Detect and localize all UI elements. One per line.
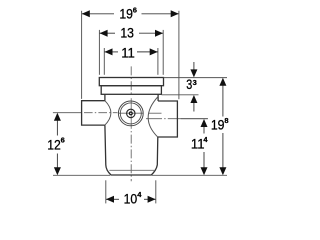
vertical centerline of body lower [130, 131, 132, 181]
svg-text:19: 19 [119, 6, 133, 21]
dimension 3.3 arrow bottom [190, 95, 197, 112]
svg-text:10: 10 [124, 192, 138, 207]
body left wall [104, 94, 106, 100]
dimension line 19.6 [82, 13, 179, 15]
svg-text:4: 4 [203, 135, 208, 144]
front socket inner circle [120, 103, 141, 124]
svg-text:12: 12 [47, 138, 61, 153]
svg-text:11: 11 [121, 46, 135, 61]
arrowhead 11 left [105, 48, 113, 55]
arrowhead 19.8 bottom [219, 167, 226, 175]
svg-text:6: 6 [61, 135, 65, 144]
extension line 3.3 top (collar top right) [164, 77, 227, 79]
arrowhead 19.8 top [219, 78, 226, 86]
svg-text:4: 4 [137, 190, 142, 199]
svg-text:3: 3 [193, 78, 197, 87]
extension line 10.4 right [155, 180, 157, 203]
arrowhead 11.4 bottom [201, 167, 208, 175]
dimension line 11.4 [203, 126, 205, 168]
body right wall upper [157, 94, 159, 101]
arrowhead 13 right [155, 30, 163, 37]
arrowhead 10.4 left [106, 196, 114, 203]
dimension line 12.6 [56, 120, 58, 168]
left branch body intersection arc [105, 101, 111, 125]
dimension line 11 [105, 51, 158, 53]
vertical centerline of body upper [130, 66, 132, 96]
left branch outline [82, 101, 105, 125]
horizontal centerline left branch solid ext [53, 112, 82, 114]
svg-text:8: 8 [224, 116, 228, 125]
bottom baseline left of body [53, 174, 110, 176]
svg-text:6: 6 [133, 5, 137, 14]
label 10.4 [124, 190, 143, 206]
extension line 11 right [157, 48, 159, 75]
extension line 11.4 (right branch axis) drawn by centerline; solid part [181, 118, 208, 120]
extension line 11 left [103, 48, 105, 75]
collar lower outline [101, 86, 161, 95]
arrowhead 12.6 top [54, 113, 61, 121]
front socket outer circle [118, 101, 143, 126]
arrowhead 11.4 top [201, 119, 208, 127]
dimension line 10.4 [106, 198, 156, 200]
label 12.6 [47, 135, 65, 152]
label 3.3 [186, 77, 196, 92]
body left wall lower and bottom [105, 125, 158, 175]
arrowhead 13 left [100, 30, 108, 37]
svg-text:19: 19 [211, 118, 225, 133]
center disc [129, 111, 133, 115]
svg-text:3: 3 [186, 77, 192, 92]
label 19.8 [211, 116, 229, 133]
extension line 13 right [162, 30, 164, 75]
extension line 3.3 bottom [162, 94, 199, 96]
arrowhead 19.6 left [82, 10, 90, 17]
vertical centerline through circle [130, 98, 132, 129]
collar rim outline [99, 78, 163, 86]
extension line 13 left [98, 30, 100, 75]
horizontal centerline left branch dashdot [84, 112, 118, 114]
dimension line 13 [100, 32, 163, 34]
center pinhole [130, 113, 131, 114]
label 11.4 [191, 135, 209, 151]
right branch outline [158, 101, 178, 137]
arrowhead 19.6 right [171, 10, 179, 17]
label 19.6 [119, 5, 137, 21]
extension line 10.4 left [105, 180, 107, 203]
arrowhead 11 right [150, 48, 158, 55]
dimension 3.3 arrow top [190, 62, 197, 77]
bottom baseline right of body [152, 174, 227, 176]
center small circle [127, 109, 135, 117]
horizontal centerline right of circle dash [149, 112, 162, 114]
svg-text:13: 13 [120, 26, 134, 41]
arrowhead 10.4 right [148, 196, 156, 203]
horizontal centerline right branch [146, 118, 208, 120]
right branch body intersection arc [148, 97, 158, 138]
dimension line 19.8 [222, 85, 224, 168]
arrowhead 12.6 bottom [54, 167, 61, 175]
body bottom interior line [109, 169, 155, 171]
extension line 19.6 right [178, 11, 180, 99]
horizontal centerline through circle [119, 112, 143, 114]
extension line 19.6 left [81, 11, 83, 99]
